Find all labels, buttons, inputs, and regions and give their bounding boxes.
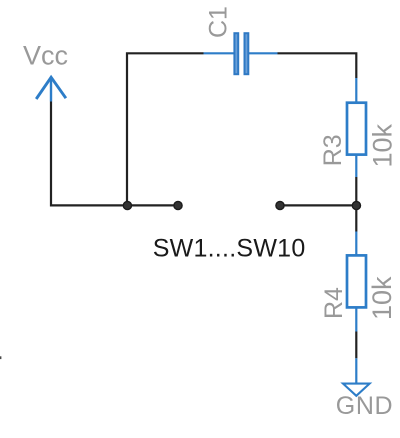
svg-text:10k: 10k — [367, 276, 397, 320]
svg-text:R4: R4 — [320, 287, 348, 319]
svg-text:10k: 10k — [367, 123, 397, 167]
svg-text:R3: R3 — [319, 134, 347, 166]
svg-text:C1: C1 — [204, 6, 232, 38]
svg-text:SW1....SW10: SW1....SW10 — [153, 235, 306, 263]
svg-text:Vcc: Vcc — [23, 41, 68, 71]
svg-text:GND: GND — [336, 392, 393, 420]
